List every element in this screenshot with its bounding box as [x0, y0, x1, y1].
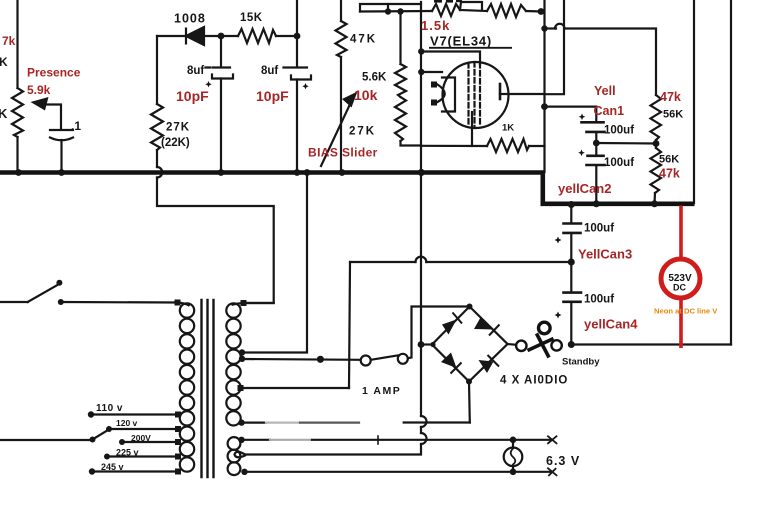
wire fuse to bridge top	[408, 307, 470, 359]
svg-text:47k: 47k	[660, 90, 681, 104]
fuse blade	[371, 355, 398, 359]
wire rail to coil tap	[245, 444, 421, 455]
junction dot chain mid	[653, 140, 660, 147]
wire can4 to standby node	[570, 303, 572, 345]
junction dot bus2 can2	[593, 200, 600, 207]
capacitor Can4 plates	[564, 293, 582, 302]
resistor presence pot 5.9k body	[12, 88, 23, 137]
wire can1 feed	[545, 107, 597, 121]
plus mark can2	[578, 150, 585, 157]
junction dot tap120	[106, 426, 112, 432]
junction dot tap110	[88, 411, 94, 417]
junction square tap225 coil	[175, 454, 181, 460]
transformer primary winding	[178, 303, 190, 307]
junction dot bus2 can3	[568, 201, 575, 208]
svg-text:yellCan4: yellCan4	[584, 317, 638, 332]
wire presence pot bottom	[16, 137, 18, 172]
wire to 47k chain corner	[566, 29, 657, 96]
bridge diode bottom-left	[441, 353, 457, 369]
resistor 47k-56K upper body	[651, 95, 662, 140]
svg-text:yellCan2: yellCan2	[558, 181, 611, 196]
mains switch blade	[28, 285, 57, 302]
bridge diode top-right	[474, 318, 494, 330]
transformer secondary winding upper	[232, 303, 244, 305]
wire sec top tap	[244, 302, 274, 304]
bridge diode top-left	[442, 320, 457, 335]
wire can2 top stub	[595, 143, 597, 155]
wire bias branch vertical upper	[156, 36, 158, 104]
svg-text:100uf: 100uf	[604, 125, 634, 137]
wire chain mid	[655, 140, 657, 148]
wire 5.6K branch top	[399, 12, 401, 65]
wire heater upper tick	[377, 436, 379, 444]
wire 47K branch top	[340, 0, 342, 21]
wire bridge left stub	[421, 343, 432, 345]
standby switch blade a	[528, 339, 554, 351]
wire sec tap 455 open loop	[235, 452, 246, 458]
junction dot tap200	[119, 439, 125, 445]
svg-text:10pF: 10pF	[256, 88, 289, 104]
svg-text:56K: 56K	[663, 109, 683, 121]
wire screen top drop x564	[545, 0, 565, 94]
junction dot bus 1	[15, 169, 22, 176]
svg-text:Can1: Can1	[594, 104, 625, 118]
neon line red	[679, 206, 683, 349]
junction square sec top	[241, 300, 247, 306]
svg-text:Presence: Presence	[27, 66, 81, 80]
tube heater pin square 2	[431, 100, 437, 106]
resistor screen body	[487, 4, 526, 17]
junction dot bus 3	[218, 169, 225, 176]
wire bias branch to bus hop	[156, 150, 158, 167]
junction dot sec heater bottom	[241, 469, 247, 475]
thick ground bus	[0, 173, 695, 204]
wire tap4 mid piece	[300, 422, 359, 424]
junction dot 15K node	[294, 33, 301, 40]
svg-text:YellCan3: YellCan3	[578, 247, 632, 262]
junction dot bus 5	[304, 169, 311, 176]
diode 1008 body	[186, 27, 204, 45]
tube heater pin square 1	[431, 82, 437, 88]
junction dot sec heater top	[238, 437, 244, 443]
svg-text:V7(EL34): V7(EL34)	[430, 34, 492, 49]
junction square sec tap3	[238, 385, 244, 391]
junction dot tap225	[104, 454, 110, 460]
wire yellcan3 horizontal	[350, 261, 416, 263]
wire bias pot bottom U	[401, 141, 422, 146]
lamp 6.3V stub top	[512, 440, 514, 448]
junction dot tube grid2	[418, 48, 424, 54]
wire can3 to node	[570, 234, 572, 262]
svg-text:K: K	[0, 55, 8, 69]
svg-text:8uf: 8uf	[187, 65, 204, 77]
wire node to 47k chain	[545, 27, 557, 29]
svg-text:Neon at DC line V: Neon at DC line V	[654, 307, 718, 316]
neon indicator circle 523V	[661, 259, 700, 298]
tap wire 225v	[107, 455, 178, 457]
svg-text:6.3 V: 6.3 V	[546, 454, 580, 468]
capacitor 8uf no2 plates	[284, 68, 312, 80]
wire cap 8uf no2 to bus	[296, 80, 298, 173]
wire top rail upper	[360, 4, 421, 12]
resistor bias pot 27K body	[395, 97, 406, 141]
svg-text:Standby: Standby	[562, 357, 600, 368]
junction dot mains blade bottom	[58, 299, 64, 305]
wire top bracket stub	[460, 2, 487, 11]
wire hop over rail	[416, 257, 427, 262]
svg-text:DC: DC	[673, 283, 686, 293]
fuse terminal 2	[398, 354, 408, 364]
right rail outer	[730, 0, 732, 345]
selector blade	[93, 430, 109, 440]
wire can3 feed	[570, 205, 572, 222]
tap wire 200v	[122, 441, 178, 443]
wire bridge bottom drop	[468, 382, 471, 423]
presence wiper arrowhead	[31, 97, 49, 111]
junction dot bridge left	[418, 341, 425, 348]
resistor 5.6K body	[395, 64, 406, 97]
junction dot rail1	[385, 8, 391, 14]
capacitor Can1 plates	[582, 122, 605, 132]
junction dot rail2	[397, 8, 403, 14]
wire bridge right stub	[508, 343, 517, 346]
resistor 15K body	[238, 29, 276, 43]
junction square tap200 coil	[175, 439, 181, 445]
junction dot mains blade top	[56, 280, 62, 286]
wire yellcan3 to node	[426, 261, 571, 263]
wire bias hop over bus	[157, 167, 162, 178]
plus mark cap2	[302, 83, 308, 89]
wire heater lower long	[245, 471, 552, 473]
svg-text:120 v: 120 v	[116, 418, 138, 428]
junction dots sec ct pair	[239, 349, 245, 355]
wire node can12 to chain	[596, 142, 656, 145]
junction dot selector pivot	[90, 437, 96, 443]
wire cap .1 to bus	[60, 140, 62, 172]
wire rail jumper	[387, 4, 389, 12]
lamp 6.3V filament	[511, 449, 516, 465]
junction dot diode node	[218, 33, 225, 40]
wire heater upper long	[312, 439, 552, 441]
wire heater lower end x	[548, 468, 557, 475]
svg-text:.1: .1	[71, 119, 81, 133]
tube V7 grid wire	[421, 71, 442, 73]
junction dot lamp bottom	[510, 469, 517, 476]
junction dot tap245	[89, 468, 95, 474]
tube V7 plate wire to rail	[500, 93, 544, 95]
wire cap 8uf no1 top	[220, 36, 222, 66]
wire hop over x564	[555, 24, 565, 29]
junction dot bridge bottom	[466, 379, 472, 385]
svg-text:5.6K: 5.6K	[362, 72, 387, 84]
bridge diode bottom-right	[479, 360, 494, 373]
wire bias branch below bus	[157, 178, 274, 304]
junction dot screen node	[541, 25, 547, 31]
wire cathode line	[421, 145, 487, 147]
resistor 56K-47k lower body	[651, 148, 662, 193]
svg-text:1K: 1K	[502, 123, 514, 134]
wire cap 8uf no1 to bus	[220, 79, 222, 173]
wire presence pot top feed	[16, 0, 18, 88]
wire bridge AC bottom horizontal	[404, 421, 470, 423]
wire top rail lower	[360, 10, 432, 13]
standby switch terminal 2	[551, 340, 561, 350]
junction dot standby node	[568, 341, 575, 348]
svg-text:1.5k: 1.5k	[421, 18, 450, 33]
resistor 47K body	[336, 21, 347, 57]
wire heater tap upper faint	[270, 439, 312, 441]
svg-text:BIAS Slider: BIAS Slider	[308, 146, 378, 160]
tap wire 110v	[91, 413, 178, 415]
junction dot bus2 chain	[651, 200, 658, 207]
right rail inner	[693, 0, 695, 203]
svg-text:15K: 15K	[240, 12, 263, 24]
wire tap4 faint piece	[266, 422, 300, 424]
tube V7 grid dashed 1	[467, 63, 469, 127]
capacitor Can2 plates	[587, 156, 605, 165]
junction square tap110 coil	[175, 412, 181, 418]
wire rail mid hop	[420, 427, 422, 433]
svg-text:100uf: 100uf	[604, 157, 634, 169]
svg-text:110 v: 110 v	[96, 403, 123, 414]
wire can4 feed	[570, 262, 572, 292]
svg-text:27K: 27K	[349, 126, 376, 138]
junction dot can1 node	[541, 103, 548, 110]
capacitor 8uf no1 plates	[206, 68, 234, 79]
junction dot bus 6	[339, 169, 346, 176]
wire chain to bus	[653, 193, 656, 203]
wire resistor to right rail	[526, 10, 541, 13]
lamp 6.3V stub bottom	[512, 466, 514, 472]
wire drop x350	[349, 262, 350, 388]
standby switch blade b	[537, 334, 550, 358]
wire tap4 solid piece	[241, 422, 266, 424]
wire diode anode to node	[204, 35, 238, 37]
wire diode branch top corner	[157, 35, 186, 37]
svg-text:10pF: 10pF	[176, 88, 209, 104]
plus mark cap1	[205, 81, 211, 87]
svg-text:K: K	[0, 106, 8, 121]
standby switch terminal 1	[516, 341, 526, 351]
transformer primary top wire	[61, 301, 178, 304]
wire right rail x544	[543, 0, 545, 172]
wire wiper to cap .1	[46, 105, 61, 129]
wire HV center tap riser	[242, 173, 307, 353]
svg-text:100uf: 100uf	[584, 223, 614, 235]
junction dot bus 7 rail	[418, 169, 425, 176]
junction square tap120 coil	[175, 426, 181, 432]
tube V7 cathode stem	[471, 112, 473, 146]
resistor 1K body	[487, 139, 529, 152]
plus mark can4	[555, 312, 562, 319]
wire can2 to bus	[595, 166, 597, 203]
wire rail hop over 422 wire	[421, 416, 427, 427]
bridge rectifier diamond	[432, 307, 508, 382]
tube V7 grid dashed 2	[473, 62, 475, 128]
wire main rail x421	[420, 2, 422, 416]
svg-text:56K: 56K	[659, 154, 679, 166]
junction dot sec tap4	[238, 419, 244, 425]
junction dot bridge left corner	[430, 342, 435, 347]
tube V7 cathode bracket	[442, 78, 455, 112]
transformer core laminations	[202, 300, 214, 477]
wire heater upper end x	[548, 436, 557, 443]
plus mark can1	[579, 114, 586, 121]
junction square tap245 coil	[175, 469, 181, 475]
plus mark can3	[555, 237, 562, 244]
tube V7 grid dashed 3	[479, 63, 481, 127]
tube V7 plate bar	[499, 84, 502, 99]
resistor 1.5k body	[432, 4, 460, 16]
junction dot rail right	[538, 8, 545, 15]
tap wire 245v	[92, 470, 178, 472]
svg-text:10k: 10k	[354, 87, 378, 103]
junction square primary top	[175, 300, 181, 306]
tube V7 envelope	[443, 62, 509, 128]
tube V7 screen wire	[421, 52, 480, 65]
junction dot bridge top	[467, 304, 473, 310]
mains switch feed wire	[0, 301, 28, 303]
selector feed wire	[0, 439, 93, 441]
wire bias slider arrow shaft	[321, 100, 352, 166]
wire fuse feed	[242, 358, 361, 361]
svg-text:(22K): (22K)	[161, 137, 190, 149]
svg-text:200V: 200V	[131, 433, 151, 443]
svg-text:5.9k: 5.9k	[27, 83, 51, 97]
junction dot fuse node	[317, 356, 324, 363]
svg-text:1 AMP: 1 AMP	[362, 385, 401, 397]
junction dot can12	[593, 140, 600, 147]
junction dot can3 node	[568, 259, 575, 266]
svg-text:Yell: Yell	[594, 84, 616, 98]
standby switch ring	[539, 322, 551, 334]
svg-text:1008: 1008	[174, 12, 206, 26]
svg-text:4 X AI0DIO: 4 X AI0DIO	[500, 375, 568, 387]
svg-text:27K: 27K	[166, 122, 190, 134]
svg-text:47K: 47K	[350, 34, 377, 46]
wire rail hop over 439 wire	[421, 433, 427, 444]
tap wire 120v	[109, 428, 178, 430]
resistor 27K(22K) body	[151, 104, 163, 150]
capacitor Can3 plates	[564, 224, 582, 233]
wire 1K to rail	[529, 145, 545, 147]
junction dot tube grid1	[418, 69, 424, 75]
svg-text:8uf: 8uf	[261, 65, 278, 77]
tube V7 heater arc	[438, 85, 445, 103]
svg-text:225 v: 225 v	[116, 448, 139, 458]
standby wire to right rail	[571, 343, 731, 345]
transformer secondary winding lower	[228, 437, 241, 450]
wire 15K to node B	[276, 35, 297, 37]
svg-text:245 v: 245 v	[101, 462, 124, 472]
top cutoff marks	[434, 0, 462, 3]
wire can1 to node	[595, 133, 597, 143]
wire cap 8uf no2 top feed	[296, 0, 298, 66]
svg-text:7k: 7k	[2, 34, 16, 48]
wire heater tap upper solid	[241, 439, 270, 441]
svg-text:100uf: 100uf	[584, 294, 614, 306]
plus mark standby	[557, 311, 559, 313]
junction dot bus 2	[58, 169, 65, 176]
fuse terminal 1	[361, 356, 371, 366]
wire 47K to bus	[340, 57, 342, 172]
svg-text:47k: 47k	[659, 167, 680, 181]
wire tap3 horizontal	[240, 387, 349, 389]
bias slider arrowhead	[342, 92, 358, 108]
lamp 6.3V envelope	[504, 448, 523, 467]
capacitor C.1 plates	[50, 130, 73, 140]
junction dot bus 4	[294, 169, 301, 176]
junction dot lamp top	[510, 437, 517, 444]
